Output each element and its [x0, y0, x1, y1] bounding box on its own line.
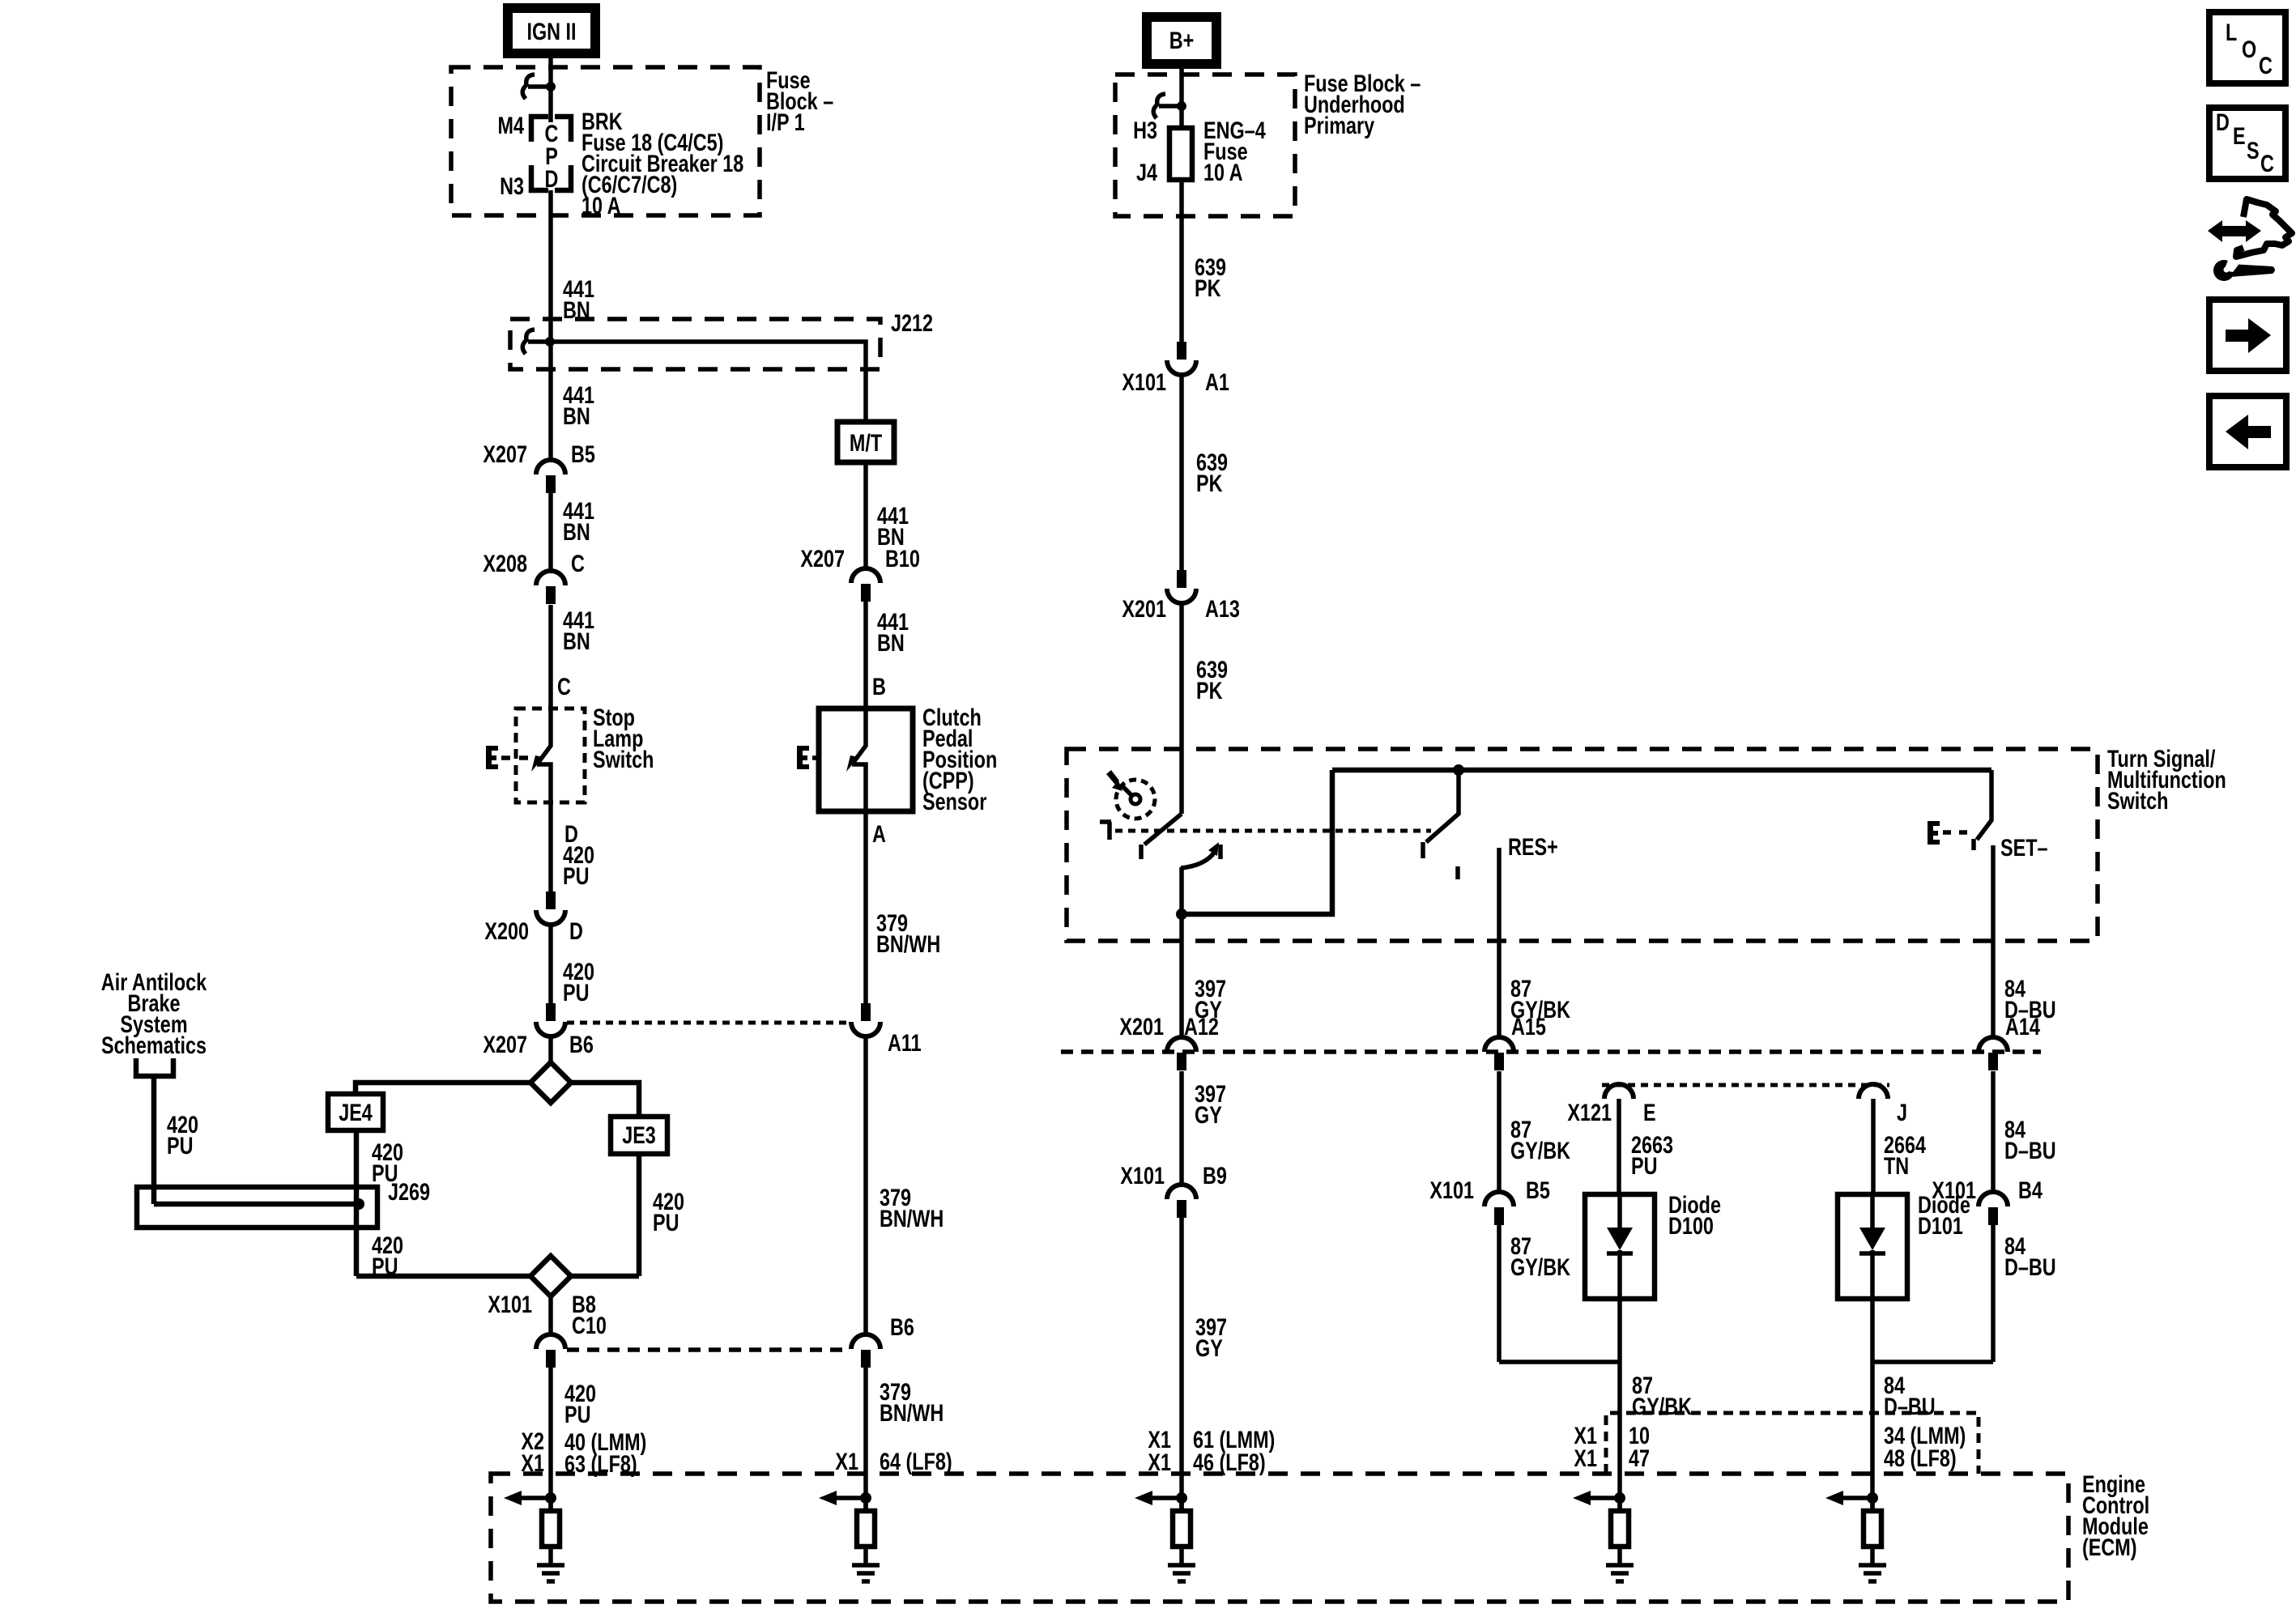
- mech dotted line: [1115, 829, 1431, 833]
- RES+ fixed contact dash: [1455, 866, 1460, 879]
- stop lamp switch fixed contact + wire: [537, 764, 551, 891]
- svg-text:BN: BN: [563, 402, 590, 429]
- wire 441 BN: [548, 493, 553, 571]
- svg-text:J4: J4: [1136, 159, 1157, 185]
- svg-text:(ECM): (ECM): [2082, 1534, 2137, 1560]
- svg-text:BN: BN: [563, 628, 590, 654]
- svg-text:47: 47: [1629, 1445, 1650, 1471]
- wire below blade to junction: [1179, 867, 1184, 1037]
- svg-text:D–BU: D–BU: [2004, 1137, 2056, 1164]
- svg-text:X200: X200: [484, 917, 529, 944]
- svg-text:BN/WH: BN/WH: [876, 930, 940, 957]
- wire IGN II to fuse block: [548, 53, 553, 122]
- svg-text:J: J: [1897, 1099, 1907, 1126]
- svg-text:PU: PU: [563, 979, 589, 1006]
- svg-text:S: S: [2247, 137, 2260, 164]
- wire 420 PU from brake schematics: [151, 1076, 157, 1204]
- svg-text:N3: N3: [500, 172, 524, 199]
- icon LOC: [2209, 12, 2285, 83]
- svg-text:JE4: JE4: [339, 1099, 373, 1126]
- right contact stub: [1218, 845, 1223, 859]
- svg-text:10 A: 10 A: [581, 192, 621, 219]
- connector X121 J: [1859, 1084, 1888, 1099]
- icon DESC: [2209, 108, 2285, 179]
- svg-text:B9: B9: [1203, 1162, 1227, 1189]
- connector X200 D: [546, 891, 556, 909]
- svg-text:GY/BK: GY/BK: [1510, 1137, 1571, 1164]
- splice junction in fuse block: [546, 82, 556, 91]
- svg-text:GY: GY: [1195, 1334, 1223, 1361]
- M/T box: [837, 422, 894, 462]
- CPP fixed contact + wire: [852, 764, 866, 1003]
- mech link E SET: [1928, 821, 1940, 845]
- svg-text:PK: PK: [1195, 274, 1221, 301]
- svg-text:BN: BN: [563, 518, 590, 545]
- ECM input stage col E: [1591, 1496, 1620, 1500]
- diode D101: [1838, 1194, 1907, 1299]
- ECM input stage col F: [1843, 1496, 1872, 1500]
- svg-text:X208: X208: [483, 550, 527, 577]
- svg-text:I/P 1: I/P 1: [766, 109, 805, 135]
- ECM notch around pins: [1606, 1413, 1979, 1474]
- svg-text:X101: X101: [1429, 1177, 1474, 1203]
- svg-text:X101: X101: [1120, 1162, 1165, 1189]
- svg-text:64 (LF8): 64 (LF8): [880, 1448, 952, 1474]
- splice diamond upper: [530, 1062, 571, 1103]
- svg-text:GY/BK: GY/BK: [1632, 1393, 1693, 1419]
- power feed B+ box: [1147, 17, 1216, 64]
- fuse block underhood dashed box: [1115, 74, 1295, 216]
- svg-text:Switch: Switch: [593, 746, 654, 772]
- svg-text:D101: D101: [1918, 1212, 1963, 1239]
- svg-text:D: D: [569, 917, 583, 944]
- svg-text:GY: GY: [1195, 1101, 1222, 1128]
- mech link E CPP: [797, 746, 809, 769]
- svg-text:D: D: [2216, 109, 2230, 135]
- fuse block I/P 1 dashed box: [451, 67, 760, 215]
- connector X207 B6: [546, 1003, 556, 1021]
- junction in underhood block: [1177, 101, 1186, 111]
- connector A14: [1979, 1037, 2008, 1052]
- stop lamp switch blade: [537, 709, 551, 764]
- connector X101 A1: [1177, 342, 1186, 360]
- svg-text:B6: B6: [890, 1313, 914, 1340]
- connector A11: [861, 1003, 871, 1021]
- fuse ENG-4: [1169, 128, 1192, 180]
- svg-text:C10: C10: [572, 1312, 607, 1338]
- mech link E stop lamp switch: [486, 746, 498, 769]
- svg-text:X121: X121: [1567, 1099, 1612, 1126]
- RES+ switch blade: [1423, 770, 1459, 858]
- circuit breaker 18 CPD symbol: [531, 117, 571, 190]
- icon diagnostic arrow/car/wrench: [2208, 220, 2261, 242]
- svg-text:PU: PU: [167, 1132, 193, 1159]
- svg-text:L: L: [2226, 19, 2237, 45]
- svg-text:TN: TN: [1884, 1152, 1909, 1179]
- svg-text:GY/BK: GY/BK: [1510, 996, 1571, 1023]
- power feed IGN II box: [508, 8, 595, 53]
- svg-text:D: D: [545, 165, 559, 192]
- svg-text:D–BU: D–BU: [2004, 996, 2056, 1023]
- svg-text:E: E: [2233, 122, 2246, 149]
- SET- switch: [1974, 770, 1991, 850]
- splice J212 dashed box: [510, 319, 880, 369]
- RES+ wire 87: [1497, 848, 1502, 1037]
- svg-text:B5: B5: [571, 440, 595, 467]
- splice J269 box: [137, 1187, 377, 1228]
- mech linkage mark: [1100, 822, 1111, 840]
- svg-text:PU: PU: [653, 1209, 679, 1236]
- svg-text:X207: X207: [483, 1031, 527, 1057]
- wire 441 BN to stop lamp switch: [548, 605, 553, 709]
- connector X101 B4: [1979, 1192, 2008, 1206]
- svg-text:B6: B6: [569, 1031, 594, 1057]
- icon forward arrow: [2209, 300, 2286, 371]
- connector X201 A13: [1177, 570, 1186, 588]
- ECM input stage col C: [1152, 1496, 1182, 1500]
- svg-text:BN/WH: BN/WH: [880, 1205, 944, 1232]
- connector A15: [1485, 1037, 1514, 1052]
- top bus: [1332, 768, 1991, 773]
- svg-text:C: C: [2260, 150, 2274, 177]
- wire 441 BN fuse to J212: [548, 190, 553, 460]
- splice pack JE4: [328, 1094, 383, 1130]
- elbow to diode output: [1499, 1360, 1620, 1364]
- elbow to diode D101 output: [1872, 1360, 1993, 1364]
- svg-text:J269: J269: [388, 1178, 430, 1205]
- svg-text:X101: X101: [488, 1291, 532, 1317]
- turn signal multifunction switch dashed box: [1067, 749, 2098, 941]
- X201 harness dashed line A12-A15-A14: [1061, 1049, 2041, 1054]
- svg-text:X207: X207: [483, 440, 527, 467]
- splice diamond lower: [530, 1256, 571, 1296]
- svg-text:X101: X101: [1122, 368, 1166, 395]
- svg-text:X201: X201: [1122, 595, 1166, 622]
- svg-text:C: C: [571, 550, 585, 577]
- svg-text:X1: X1: [1574, 1445, 1597, 1471]
- connector X201 A12: [1167, 1037, 1196, 1052]
- svg-text:RES+: RES+: [1508, 833, 1558, 860]
- cruise gauge icon: [1116, 780, 1155, 819]
- svg-text:10 A: 10 A: [1203, 159, 1243, 185]
- ECM dashed box: [491, 1474, 2068, 1602]
- svg-text:X1: X1: [835, 1448, 858, 1474]
- icon back arrow: [2209, 396, 2286, 467]
- svg-text:PK: PK: [1196, 470, 1223, 496]
- wire diamond to JE3: [571, 1083, 639, 1117]
- svg-text:GY/BK: GY/BK: [1510, 1253, 1571, 1280]
- cruise main switch blade: [1141, 814, 1182, 859]
- svg-text:A1: A1: [1205, 368, 1229, 395]
- svg-text:PK: PK: [1196, 677, 1223, 704]
- ECM input stage col A: [522, 1496, 551, 1500]
- svg-text:J212: J212: [891, 309, 933, 336]
- connector X207 B5: [536, 460, 565, 474]
- svg-text:B4: B4: [2018, 1177, 2043, 1203]
- diode D100: [1585, 1194, 1655, 1299]
- svg-text:X207: X207: [800, 545, 845, 572]
- svg-text:B5: B5: [1526, 1177, 1550, 1203]
- stop lamp switch dashed box: [516, 709, 585, 802]
- connector X121 E: [1604, 1084, 1634, 1099]
- svg-text:Switch: Switch: [2107, 787, 2168, 814]
- svg-text:C: C: [2259, 52, 2273, 79]
- CPP switch blade: [852, 709, 866, 764]
- svg-text:JE3: JE3: [622, 1121, 656, 1148]
- connector X101 B9: [1167, 1185, 1196, 1199]
- svg-text:Schematics: Schematics: [101, 1032, 207, 1058]
- svg-text:A: A: [872, 820, 886, 847]
- svg-text:BN/WH: BN/WH: [880, 1399, 944, 1426]
- svg-text:B+: B+: [1169, 27, 1195, 53]
- svg-text:C: C: [557, 673, 571, 700]
- X101 harness dashed line to B6: [567, 1347, 850, 1352]
- svg-text:X201: X201: [1119, 1013, 1164, 1040]
- connector B6 col B: [851, 1334, 880, 1349]
- svg-text:E: E: [1643, 1099, 1656, 1126]
- wire diamond to JE4: [356, 1083, 530, 1094]
- svg-text:A11: A11: [888, 1029, 922, 1056]
- svg-text:Sensor: Sensor: [922, 788, 987, 815]
- svg-text:B: B: [872, 673, 886, 700]
- X121 harness dotted line E-J: [1602, 1083, 1889, 1087]
- wire inside J269: [154, 1202, 359, 1207]
- svg-text:D–BU: D–BU: [1884, 1393, 1936, 1419]
- clutch pedal position sensor box: [819, 709, 913, 811]
- splice pack JE3: [611, 1117, 667, 1154]
- connector X208 C: [536, 571, 565, 585]
- wire J212 branch to M/T: [550, 342, 866, 422]
- X207 harness dotted line B6-A11: [567, 1021, 849, 1025]
- svg-text:IGN II: IGN II: [526, 18, 576, 45]
- svg-text:PU: PU: [564, 1401, 590, 1428]
- svg-text:A12: A12: [1184, 1013, 1219, 1040]
- connector X207 B10: [851, 568, 880, 583]
- svg-text:PU: PU: [1631, 1152, 1657, 1179]
- junction dot + jog to top bus: [1176, 908, 1187, 920]
- svg-text:BN: BN: [877, 629, 905, 656]
- svg-text:PU: PU: [563, 862, 589, 889]
- junction dot J269: [353, 1198, 364, 1210]
- svg-text:48 (LF8): 48 (LF8): [1884, 1445, 1957, 1471]
- svg-text:O: O: [2242, 36, 2256, 62]
- connector X101 B8/C10: [536, 1334, 565, 1349]
- svg-text:M4: M4: [498, 112, 525, 138]
- bracket to brake schematics: [136, 1058, 173, 1076]
- svg-text:SET–: SET–: [2000, 834, 2048, 861]
- svg-text:B10: B10: [885, 545, 920, 572]
- svg-text:D100: D100: [1668, 1212, 1714, 1239]
- junction dot J212: [545, 337, 555, 347]
- svg-text:A13: A13: [1205, 595, 1240, 622]
- lower bus to diamond: [356, 1274, 639, 1279]
- connector X101 B5 col D: [1485, 1192, 1514, 1206]
- svg-text:D–BU: D–BU: [2004, 1253, 2056, 1280]
- svg-text:M/T: M/T: [850, 429, 883, 456]
- swing arc w/ arrowhead: [1181, 852, 1215, 868]
- svg-text:H3: H3: [1133, 117, 1157, 143]
- svg-text:Primary: Primary: [1304, 112, 1374, 138]
- svg-text:X101: X101: [1932, 1177, 1976, 1203]
- ECM input stage col B: [837, 1496, 866, 1500]
